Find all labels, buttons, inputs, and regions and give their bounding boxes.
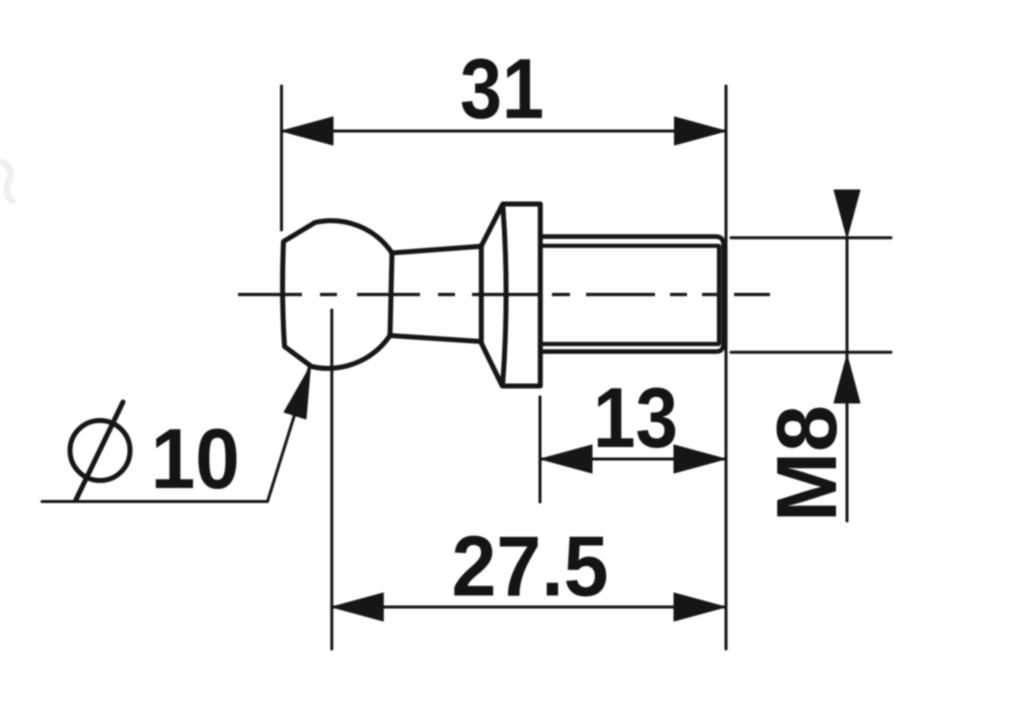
- dimension M8: top arrow: [834, 190, 860, 238]
- dimension 31: left arrow: [282, 117, 334, 145]
- svg-text:10: 10: [151, 412, 240, 507]
- centerline: [238, 293, 770, 296]
- faint smudge top-left edge: [2, 162, 12, 201]
- dimension 31: right extension line (shared, full height): [725, 86, 728, 649]
- svg-text:27.5: 27.5: [452, 520, 609, 615]
- dimension 31: dimension line: [282, 130, 727, 133]
- leader line for diameter 10: [42, 367, 310, 502]
- dimension M8: bottom extension line: [731, 351, 891, 354]
- leader arrow: [284, 366, 311, 419]
- dimension 27.5: dimension line: [332, 606, 726, 609]
- svg-text:M8: M8: [760, 405, 855, 522]
- diameter symbol: circle: [70, 421, 130, 481]
- flange: [481, 204, 540, 386]
- dimension 27.5: right arrow: [674, 593, 726, 621]
- dimension 27.5: left extension line (from ball centre): [330, 310, 333, 649]
- dimension M8: top extension line: [731, 236, 891, 239]
- dimension M8: dimension line: [846, 238, 849, 521]
- dimension 13: left arrow: [541, 445, 593, 473]
- dimension 13: dimension line: [541, 458, 726, 461]
- ball: [283, 221, 392, 369]
- dimension M8: bottom arrow: [834, 355, 860, 403]
- dimension 13: right arrow: [674, 445, 726, 473]
- dimension 31: left extension line: [280, 86, 283, 230]
- neck cone: [390, 245, 482, 343]
- dimension 13: left extension line: [539, 397, 542, 502]
- dimension 31: right arrow: [675, 117, 727, 145]
- thread shaft root lines (minor diameter): [540, 246, 719, 344]
- dimension 27.5: left arrow: [332, 593, 384, 621]
- thread shaft outer (major diameter): [540, 237, 723, 352]
- svg-text:31: 31: [460, 42, 544, 137]
- svg-text:13: 13: [593, 371, 678, 466]
- diameter symbol: slash: [76, 402, 123, 501]
